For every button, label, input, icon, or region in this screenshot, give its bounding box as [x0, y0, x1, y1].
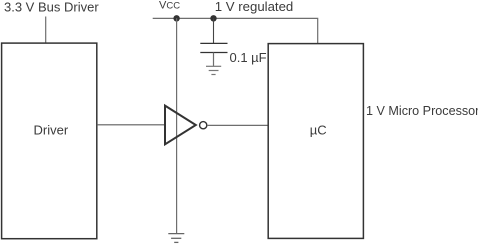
svg-text:3.3 V Bus Driver: 3.3 V Bus Driver [4, 0, 99, 14]
inverter U2 triangle [165, 106, 196, 145]
leader wire from label to Driver box [45, 17, 47, 43]
ground (capacitor) [206, 66, 221, 74]
inverter output bubble [200, 122, 207, 129]
wire top Vcc rail [153, 18, 318, 43]
svg-text:µC: µC [310, 122, 327, 137]
driver U1 box [2, 43, 97, 239]
svg-text:VCC: VCC [159, 0, 180, 12]
wire junction to capacitor [213, 18, 215, 43]
node Vcc junction [173, 15, 179, 21]
svg-text:1 V Micro Processor: 1 V Micro Processor [366, 104, 478, 118]
node capacitor junction [210, 15, 216, 21]
wire Vcc vertical through inverter to ground [176, 18, 178, 233]
wire inverter output to uC [207, 124, 268, 126]
svg-text:0.1 µF: 0.1 µF [230, 50, 267, 65]
capacitor C1 0.1uF [200, 43, 227, 52]
wire capacitor to ground [213, 53, 215, 67]
wire Driver output to inverter input [97, 124, 165, 126]
microprocessor U3 box [268, 44, 363, 239]
svg-text:Driver: Driver [34, 123, 69, 138]
svg-text:1 V regulated: 1 V regulated [215, 0, 293, 14]
ground (inverter) [168, 234, 184, 243]
